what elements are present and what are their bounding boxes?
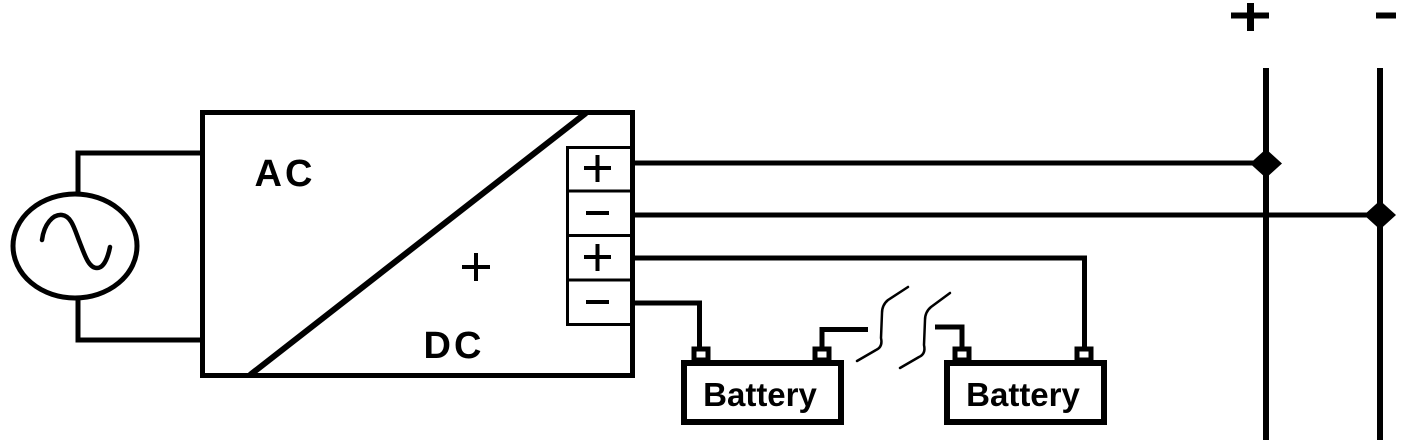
svg-text:Battery: Battery	[703, 376, 817, 413]
svg-text:DC: DC	[424, 325, 485, 367]
svg-text:Battery: Battery	[966, 376, 1080, 413]
svg-text:AC: AC	[255, 153, 316, 195]
